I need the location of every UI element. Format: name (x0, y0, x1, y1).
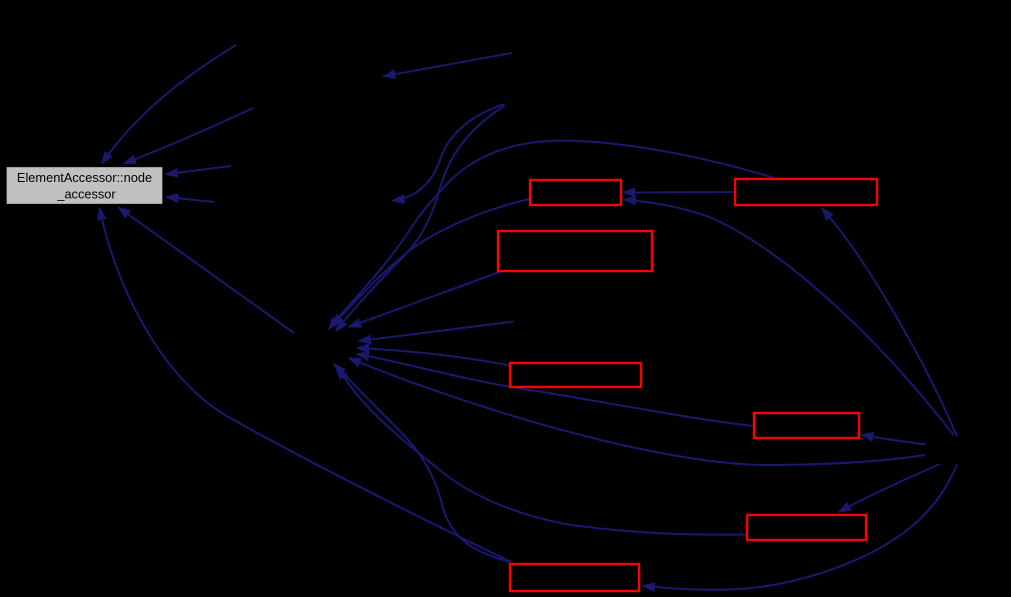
wire edge A into top of gray box (102, 45, 236, 164)
wire edge E with arrowhead mid-left (393, 104, 506, 201)
node K4 red box (510, 363, 641, 387)
wire edge from node K5 into hub (357, 354, 754, 426)
node ElementAccessor::node_accessor (gray box) (6, 167, 163, 205)
wire long arc from node K7 into bottom of gray box (100, 208, 512, 562)
node K6 red box (747, 515, 866, 540)
wire edge C into right of gray box (166, 166, 231, 174)
wire edge from node K7 into hub (334, 364, 510, 562)
wire stub edge into hub (359, 322, 514, 342)
wire edge from node K3 into hub (349, 272, 501, 328)
wire over-the-top arc from node K2 into hub (329, 141, 774, 329)
wire edge R5 from right node into node K6 (839, 464, 940, 512)
wire edge R6 from right node into node K7 (643, 465, 957, 590)
svg-text:_accessor: _accessor (56, 186, 116, 201)
wire edge D into right of gray box (167, 197, 215, 202)
wire edge from node K6 into hub (338, 367, 747, 535)
wire standalone arrow top middle (384, 53, 513, 76)
wire edge from right node into hub (349, 358, 925, 465)
node K7 red box (510, 564, 639, 591)
wire edge B into top of gray box (124, 108, 253, 164)
node K5 red box (754, 413, 859, 438)
wire edge from node K4 into hub (357, 348, 510, 366)
wire edge R2 from right node into node K1 (624, 200, 954, 436)
wire edge from node K1 into hub (332, 199, 529, 326)
wire edge G into hub (336, 106, 504, 331)
node K3 red box (498, 231, 652, 271)
wire edge from hub node into bottom of gray box (119, 208, 295, 334)
wire horizontal edge from node K2 into node K1 (623, 191, 733, 194)
wire edge R3 from right node into node K5 (862, 435, 927, 445)
wire edge R1 from right node into node K2 (822, 209, 957, 437)
node K2 red box (735, 179, 877, 205)
svg-text:ElementAccessor::node: ElementAccessor::node (17, 170, 152, 185)
node K1 red box (530, 180, 621, 205)
